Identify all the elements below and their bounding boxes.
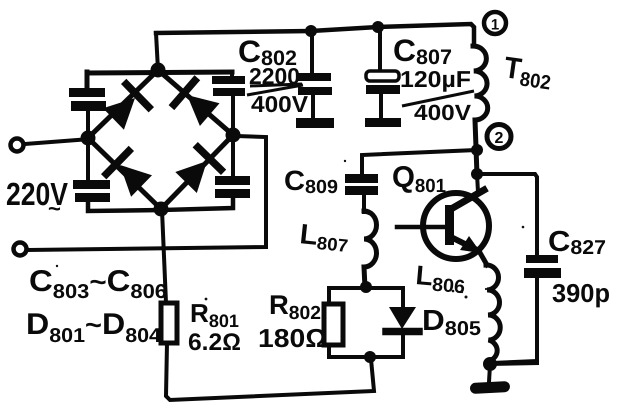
- node collector junction: [471, 168, 483, 180]
- capacitor C809: [345, 174, 378, 212]
- wire top rail: [156, 24, 474, 46]
- wire collector to node: [477, 174, 478, 192]
- scan specks: [56, 160, 525, 301]
- fraction line C802: [247, 84, 303, 95]
- wire tap to C809: [362, 150, 477, 176]
- wire bridge edge bottom-left: [88, 138, 161, 209]
- node bridge right: [226, 128, 241, 143]
- wire bridge edge left-top: [88, 70, 158, 138]
- capacitor (bridge top-right, one of C803~C806): [212, 72, 245, 136]
- inductor L807: [364, 211, 377, 288]
- capacitor (bridge top-left, one of C803~C806): [69, 72, 232, 139]
- diode D801 (bridge top-left): [103, 84, 149, 130]
- AC input terminal (top): [11, 139, 91, 152]
- svg-text:6.2Ω: 6.2Ω: [188, 329, 241, 356]
- capacitor (bridge bottom-left, one of C803~C806): [73, 137, 161, 211]
- terminal 2 (circled): [487, 125, 511, 149]
- transistor Q801: [423, 190, 489, 265]
- AC input terminal (bottom): [14, 136, 267, 256]
- diode D804 (bridge bottom-right): [175, 147, 221, 193]
- resistor R802: [324, 304, 343, 345]
- node emitter/ground junction: [483, 357, 497, 371]
- capacitor C802: [296, 32, 334, 128]
- resistor R801: [161, 303, 177, 343]
- node bridge top: [151, 63, 166, 78]
- svg-text:120µF: 120µF: [400, 66, 471, 92]
- svg-text:180Ω: 180Ω: [258, 323, 327, 353]
- capacitor C807: [365, 27, 401, 127]
- node bridge left: [81, 131, 96, 146]
- svg-text:390p: 390p: [552, 278, 610, 308]
- terminal 1 (circled): [484, 12, 506, 34]
- wire R802/D805 loop: [329, 288, 403, 357]
- diode D802 (bridge top-right): [174, 81, 220, 126]
- svg-text:400V: 400V: [414, 100, 471, 125]
- inductor T802 winding: [473, 46, 488, 175]
- svg-text:~: ~: [48, 196, 61, 221]
- ground: [470, 365, 511, 394]
- capacitor (bridge bottom-right, one of C803~C806): [162, 134, 250, 210]
- svg-text:2: 2: [495, 130, 504, 147]
- wire bridge bottom to R801: [162, 210, 166, 303]
- capacitor C827: [491, 255, 561, 363]
- inductor L806: [486, 265, 500, 361]
- wire collector node to C827: [477, 174, 537, 256]
- label 220V: [6, 176, 69, 221]
- diode D805: [386, 307, 419, 332]
- node L807/R802/D805 top: [360, 281, 372, 293]
- wire Q801 base: [397, 225, 447, 230]
- wire bridge edge top-right: [158, 70, 233, 135]
- node C802 on rail: [305, 25, 317, 37]
- svg-text:1: 1: [491, 17, 499, 34]
- node R802/D805 bottom: [364, 351, 376, 363]
- wire junction to C827 bottom: [490, 363, 537, 364]
- wire bridge edge right-bottom: [161, 135, 233, 209]
- wire R801 bottom rail to R802/D805 loop: [166, 343, 374, 400]
- diode D803 (bridge bottom-left): [106, 151, 152, 197]
- fraction line C807: [402, 91, 474, 106]
- node bridge bottom: [154, 202, 169, 217]
- wire top-left drop to bridge top node: [156, 33, 158, 70]
- node T802 tap: [471, 144, 483, 156]
- node C807 on rail: [372, 21, 384, 33]
- svg-text:400V: 400V: [251, 91, 309, 117]
